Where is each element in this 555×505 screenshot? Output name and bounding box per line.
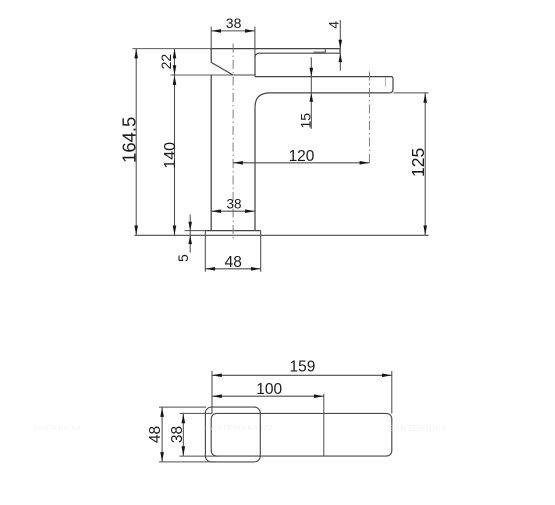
svg-text:38: 38 — [169, 426, 186, 443]
dim 38 (top view): arrows — [182, 413, 186, 456]
dim 5: line — [189, 215, 191, 253]
dim 38 top: right ext — [254, 27, 256, 58]
dim 164.5: line — [135, 49, 137, 236]
body right edge — [254, 107, 256, 230]
dim 48: arrows — [205, 267, 260, 271]
svg-text:140: 140 — [162, 142, 179, 169]
lever tip edge (top view) + 100 right ext — [323, 394, 325, 457]
dim 120: line — [233, 162, 369, 164]
dim 48 (top view): arrows — [160, 407, 164, 462]
dim 48 (top view): ext bottom — [159, 461, 216, 463]
dim 48: line — [205, 268, 260, 270]
dim 100: line — [212, 395, 324, 397]
dim 140: line — [174, 75, 176, 235]
dim 38 top: line — [211, 30, 255, 32]
outlet centerline — [368, 72, 370, 163]
svg-text:5: 5 — [175, 254, 191, 262]
spout top edge — [255, 77, 393, 79]
base left edge + 48 extension — [204, 231, 206, 272]
lever top extension line (to left dims) — [132, 48, 211, 50]
lever top edge — [211, 48, 340, 50]
spout tip right edge — [389, 79, 393, 93]
svg-text:SANTEHNIKA: SANTEHNIKA — [388, 423, 447, 433]
svg-text:38: 38 — [226, 15, 242, 31]
cap right edge — [254, 58, 256, 77]
svg-text:100: 100 — [256, 381, 282, 398]
base plate outline (48x48) — [205, 407, 260, 462]
dim 120: arrows — [233, 161, 369, 165]
spout bottom edge with curve into body — [255, 93, 389, 108]
svg-text:SANTEHNIKA: SANTEHNIKA — [33, 425, 81, 432]
svg-text:SANTEHNIKA RU: SANTEHNIKA RU — [205, 423, 273, 432]
dim 4: arrows — [339, 40, 343, 62]
ground line / bottom extension — [135, 234, 429, 236]
dim 22: arrows — [173, 49, 177, 76]
cap bottom edge — [233, 74, 255, 76]
dim 125: ext — [394, 92, 429, 94]
svg-text:38: 38 — [226, 197, 241, 212]
lever tick detail — [324, 49, 326, 54]
dim 22: line — [174, 49, 176, 76]
dim 15: arrows — [310, 68, 314, 102]
handle diagonal front face — [211, 62, 233, 75]
base right edge + 48 extension — [260, 231, 262, 272]
svg-text:22: 22 — [158, 54, 174, 70]
svg-text:159: 159 — [289, 359, 315, 376]
lever tip edge — [339, 49, 341, 54]
dim 5: ext — [185, 230, 206, 232]
body left edge — [210, 75, 212, 231]
svg-text:164.5: 164.5 — [119, 117, 140, 163]
svg-text:48: 48 — [147, 426, 164, 443]
dim 38 (top view): ext bottom — [180, 455, 219, 457]
body+spout outline (159x38) — [211, 413, 392, 456]
dim 159: arrows — [212, 374, 392, 378]
dim 5: arrows — [188, 222, 192, 244]
body centerline — [232, 44, 234, 241]
dim 164.5: arrows — [134, 49, 138, 236]
svg-text:15: 15 — [297, 113, 313, 129]
dim 38 (top view): ext top — [180, 412, 213, 414]
base top edge — [205, 230, 260, 232]
lever inner seg — [314, 51, 326, 53]
dim 38 bottom: line — [211, 210, 255, 212]
dim 48 (top view): ext top — [159, 406, 206, 408]
left extension (159/100) — [211, 371, 213, 414]
dim 38 bottom: arrows — [211, 209, 255, 213]
dim 38 top: arrows — [211, 29, 255, 33]
lever bottom edge with rear curve into cap — [255, 53, 340, 57]
right extension (159) — [391, 371, 393, 414]
dim 125: line — [424, 93, 426, 235]
handle cap left edge — [210, 49, 212, 63]
dim 125: arrows — [423, 93, 427, 235]
svg-text:48: 48 — [225, 254, 242, 271]
cap bottom extension line (22/140 dims) — [171, 74, 233, 76]
svg-text:125: 125 — [408, 148, 428, 177]
svg-text:4: 4 — [326, 21, 342, 29]
dim 38 (top view): line — [182, 413, 184, 456]
dim 159: line — [212, 374, 392, 376]
dim 48 (top view): line — [161, 407, 163, 462]
svg-text:120: 120 — [289, 148, 315, 165]
dim 140: arrows — [173, 75, 177, 235]
dim 100: arrows — [212, 394, 324, 398]
spout aerator inner edge — [384, 77, 386, 86]
dim 38 top: left ext — [210, 27, 212, 49]
dim 15: line — [310, 57, 312, 129]
dim 4: line — [339, 20, 341, 71]
